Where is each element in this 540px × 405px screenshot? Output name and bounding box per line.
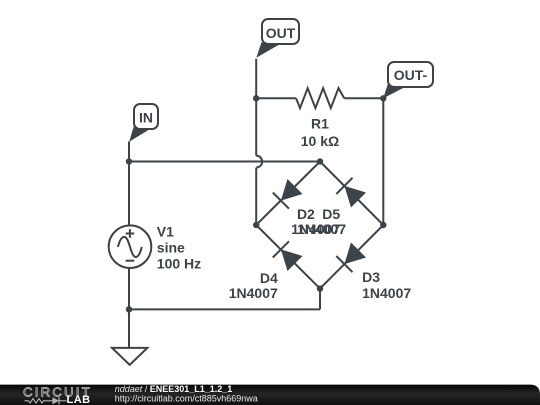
flag OUT [256, 19, 299, 58]
ground [112, 348, 147, 365]
svg-text:nddaet / ENEE301_L1_1.2_1: nddaet / ENEE301_L1_1.2_1 [115, 384, 233, 394]
footer bar [0, 385, 540, 405]
junction bridge left vertex [253, 222, 259, 228]
wire IN node down to V1 top [128, 162, 130, 226]
logo diode symbol [53, 397, 60, 404]
svg-text:D5: D5 [322, 206, 340, 222]
bridge arm top-right [320, 162, 383, 226]
wire IN horizontal to bridge top vertex [129, 161, 320, 163]
wire hop over IN wire [256, 156, 262, 168]
junction bridge right vertex [380, 222, 386, 228]
svg-text:1N4007: 1N4007 [297, 221, 346, 237]
junction node IN [126, 158, 132, 164]
svg-text:V1: V1 [157, 223, 174, 239]
diode D3 [336, 243, 366, 273]
wire V1 bottom down to bottom rail [128, 268, 130, 309]
junction bridge bottom vertex [317, 285, 323, 291]
wire right lead of R1 [344, 97, 383, 99]
wire left vertical from hop to left bridge vertex [255, 168, 257, 225]
svg-text:1N4007: 1N4007 [362, 285, 411, 301]
flag OUT- [383, 62, 433, 98]
diode D2 [273, 179, 303, 209]
wire OUT flag stem [255, 59, 257, 99]
wire top rail left lead of R1 [256, 97, 296, 99]
junction bridge top vertex [317, 158, 323, 164]
svg-text:100 Hz: 100 Hz [157, 255, 201, 271]
svg-text:LAB: LAB [67, 394, 91, 405]
svg-text:OUT-: OUT- [394, 67, 428, 83]
wire IN flag stem [128, 142, 130, 162]
bridge arm top-left [256, 162, 320, 226]
diode D5 [336, 178, 366, 208]
svg-text:1N4007: 1N4007 [229, 285, 278, 301]
svg-text:D2: D2 [297, 206, 315, 222]
svg-text:sine: sine [157, 239, 185, 255]
svg-text:IN: IN [139, 109, 153, 125]
wire right vertical OUT- node to right bridge vertex [382, 98, 384, 225]
junction ground node [126, 306, 132, 312]
svg-text:D4: D4 [260, 270, 278, 286]
wire bottom rail [129, 308, 320, 310]
svg-text:10 kΩ: 10 kΩ [301, 133, 339, 149]
flag IN [129, 104, 158, 142]
bridge arm bottom-left [256, 225, 320, 289]
bridge arm bottom-right [320, 225, 383, 289]
voltage source V1 [109, 225, 152, 268]
diode D4 [273, 241, 303, 271]
svg-text:R1: R1 [311, 116, 329, 132]
logo schematic squiggle [25, 399, 53, 403]
wire bridge bottom vertex down to bottom rail [319, 289, 321, 310]
junction node OUT [253, 95, 259, 101]
wire ground stem [128, 309, 130, 348]
wire left vertical from OUT node to hop [255, 98, 257, 155]
resistor R1 [296, 88, 344, 108]
svg-text:OUT: OUT [266, 25, 296, 41]
svg-text:http://circuitlab.com/ct885vh6: http://circuitlab.com/ct885vh669nwa [115, 393, 258, 403]
svg-text:D3: D3 [362, 269, 380, 285]
junction node OUT- [380, 95, 386, 101]
